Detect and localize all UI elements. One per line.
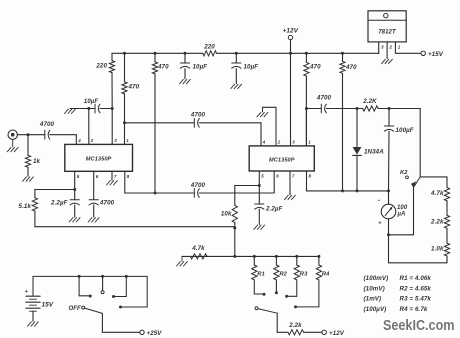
- switch contact 1: [79, 276, 89, 295]
- resistor 470 (to IC2 pin 1): [305, 53, 307, 62]
- svg-text:4700: 4700: [190, 111, 206, 118]
- pin 2 of U1: [88, 109, 90, 145]
- svg-text:R3: R3: [300, 272, 308, 278]
- svg-text:1N34A: 1N34A: [364, 149, 384, 156]
- svg-text:µA: µA: [397, 212, 406, 218]
- svg-text:4700: 4700: [316, 95, 332, 102]
- node 10k-R rail: [233, 255, 236, 258]
- svg-text:R1 = 4.06k: R1 = 4.06k: [400, 275, 432, 282]
- node 470 bottom: [341, 189, 344, 192]
- wire pin5 to 5.1k: [35, 189, 75, 191]
- resistor 5.1k: [32, 198, 37, 211]
- wire switch to +25V terminal: [101, 313, 103, 332]
- pin 5 of U2: [258, 171, 260, 186]
- capacitor 100uF: [388, 109, 390, 127]
- ground (2.2uF IC2): [254, 225, 258, 229]
- pin 1 of 7812T: [394, 42, 396, 53]
- switch contact center stub: [102, 276, 104, 290]
- wire IC2 pin8 to detector junction: [307, 190, 389, 192]
- node meter top junction: [387, 189, 390, 192]
- svg-text:2.2k: 2.2k: [288, 322, 302, 329]
- battery B1 15V: [26, 295, 40, 297]
- svg-text:470: 470: [309, 64, 321, 71]
- capacitor 2.2uF (IC1 pin5): [74, 190, 76, 200]
- pin 2 of U2 to ground hook: [263, 107, 277, 146]
- op-amp U2 MC1350P: [249, 146, 314, 171]
- wire IC2 pin1 vertical: [305, 109, 307, 146]
- pin 6 of U1: [93, 171, 95, 199]
- node IC1 pin5 junction: [73, 188, 76, 191]
- svg-text:R4: R4: [322, 272, 330, 278]
- resistor R4: [318, 256, 320, 265]
- svg-text:MC1350P: MC1350P: [86, 157, 112, 163]
- svg-text:MC1350P: MC1350P: [269, 158, 295, 164]
- svg-text:4700: 4700: [190, 182, 206, 189]
- capacitor 10uF (IC1 bias): [94, 104, 96, 113]
- node IC1 pin2 junction: [87, 107, 90, 110]
- node R2 top: [275, 255, 278, 258]
- wire meter bottom to wiper: [389, 234, 414, 236]
- node battery rail taps: [78, 275, 81, 278]
- svg-text:2.2µF: 2.2µF: [50, 200, 68, 207]
- terminal +15V: [421, 51, 425, 55]
- ground (IC2 pin 7): [285, 195, 289, 199]
- wire +12V to rail and IC2 pin 3: [290, 40, 292, 54]
- svg-text:+25V: +25V: [147, 330, 163, 337]
- svg-text:10k: 10k: [221, 211, 232, 218]
- ground (IC1 pin 2 bypass): [65, 109, 69, 113]
- voltage regulator U3 7812T: [368, 11, 406, 42]
- svg-text:100: 100: [397, 205, 408, 211]
- svg-text:OFF: OFF: [69, 306, 82, 312]
- node diode top: [356, 107, 359, 110]
- svg-text:+12V: +12V: [329, 330, 345, 337]
- capacitor 10uF (first bypass): [184, 53, 186, 63]
- ground (2.2uF IC1): [69, 218, 73, 222]
- svg-text:10µF: 10µF: [244, 64, 259, 71]
- resistor 4.7k chain: [446, 177, 448, 188]
- node R3 top: [295, 255, 298, 258]
- svg-text:R2 = 4.65k: R2 = 4.65k: [400, 285, 432, 292]
- wire chain bottom: [446, 256, 448, 263]
- svg-text:(100µV): (100µV): [364, 306, 387, 313]
- svg-text:K2: K2: [400, 170, 408, 176]
- svg-text:470: 470: [345, 64, 357, 71]
- resistor 2.2k output: [288, 330, 304, 335]
- pin 5 of U1: [74, 171, 76, 189]
- node R4 top: [317, 255, 320, 258]
- svg-text:100µF: 100µF: [396, 127, 414, 134]
- input coax connector J1: [8, 130, 17, 139]
- svg-text:8: 8: [127, 174, 130, 179]
- ground (IC2 pin 2): [257, 112, 261, 116]
- svg-text:220: 220: [95, 63, 107, 70]
- resistor 1.0k chain: [446, 228, 448, 243]
- node IC1 pin3 bias junction: [111, 107, 114, 110]
- capacitor 4700 input coupling: [28, 134, 45, 136]
- wire input to IC1 pin 4: [75, 135, 77, 145]
- pin 7 of U1: [111, 171, 113, 180]
- wire to 2.2k output: [277, 331, 288, 333]
- wire pin5 to 10k: [235, 185, 259, 187]
- resistor 4.7k horizontal: [190, 254, 207, 259]
- resistor 220 (series in rail): [203, 51, 217, 56]
- svg-text:+12V: +12V: [283, 28, 299, 35]
- svg-text:4.7k: 4.7k: [430, 190, 444, 197]
- svg-text:4700: 4700: [39, 121, 55, 128]
- wire 10k to R network rail: [234, 228, 236, 257]
- wire R network rail: [182, 255, 319, 257]
- wire to IC2 pin 4: [260, 123, 262, 146]
- svg-text:2.2µF: 2.2µF: [265, 206, 283, 213]
- node 100uF top: [388, 107, 391, 110]
- ground (regulator): [382, 59, 386, 63]
- svg-text:2.2k: 2.2k: [430, 219, 444, 226]
- ground (1k): [23, 177, 27, 181]
- node 10k bottom junction: [233, 226, 236, 229]
- svg-text:(100mV): (100mV): [364, 275, 389, 282]
- svg-text:+: +: [25, 289, 29, 295]
- node R1 top: [253, 255, 256, 258]
- svg-text:4700: 4700: [99, 200, 115, 207]
- node wire A and 470 line: [154, 192, 157, 195]
- svg-text:2.2K: 2.2K: [362, 98, 377, 105]
- svg-text:1: 1: [398, 45, 401, 50]
- pin 3 of 7812T: [378, 42, 380, 53]
- resistor 220 vertical: [111, 53, 113, 60]
- capacitor 4700 (IC1 pin6): [89, 199, 98, 201]
- capacitor 2.2uF (IC2 pin5): [258, 186, 260, 205]
- pin 8 of U2: [306, 171, 308, 191]
- resistor 2.2K detector: [363, 106, 378, 111]
- svg-text:10µF: 10µF: [193, 64, 208, 71]
- terminal +12V top: [288, 35, 292, 39]
- terminal +25V: [140, 330, 144, 334]
- pin 8 of U1: [124, 171, 126, 193]
- selector switch arm: [255, 307, 258, 310]
- node IC2 pin5 junction: [258, 184, 261, 187]
- ground (10uF first): [180, 79, 184, 83]
- svg-text:R3 = 5.47k: R3 = 5.47k: [400, 296, 432, 303]
- resistor 470 (to detector line): [342, 53, 344, 61]
- svg-text:R2: R2: [279, 272, 287, 278]
- node meter bottom junction: [387, 233, 390, 236]
- ground (battery): [28, 322, 32, 326]
- node wire B junction on pin1 line: [123, 121, 126, 124]
- svg-text:4: 4: [77, 138, 81, 143]
- ground (IC1 pin 7): [107, 181, 111, 185]
- wire pivot to chain top: [420, 176, 447, 178]
- ground (input connector): [7, 147, 11, 151]
- svg-text:7812T: 7812T: [378, 30, 397, 36]
- pin 7 of U2: [289, 171, 291, 195]
- resistor R1: [253, 256, 255, 265]
- svg-text:R4 = 6.7k: R4 = 6.7k: [400, 306, 428, 313]
- resistor R3: [296, 256, 298, 265]
- switch contact 3: [115, 276, 126, 296]
- switch contact right: [119, 306, 122, 309]
- svg-text:(1mV): (1mV): [364, 296, 382, 303]
- svg-text:10µF: 10µF: [84, 99, 98, 105]
- resistor 10k: [232, 205, 237, 222]
- svg-text:2: 2: [388, 45, 392, 50]
- wire B interstage coupling: [125, 122, 195, 124]
- svg-text:3: 3: [292, 140, 295, 145]
- node input junction: [27, 133, 30, 136]
- capacitor 10uF (second bypass): [235, 53, 237, 63]
- resistor 1k: [27, 135, 29, 156]
- svg-text:470: 470: [157, 64, 169, 71]
- pin 3 of U1: [111, 109, 113, 145]
- capacitor 4700 detector coupling: [320, 104, 322, 113]
- svg-text:(10mV): (10mV): [364, 285, 385, 292]
- svg-text:220: 220: [203, 44, 215, 51]
- capacitor 4700 interstage: [193, 118, 195, 127]
- wire AGC feedback bottom: [35, 226, 235, 228]
- ground (4700 IC1): [88, 218, 92, 222]
- wire battery top rail: [33, 276, 147, 307]
- wire +12V supply rail: [112, 52, 203, 54]
- svg-text:2: 2: [90, 138, 94, 143]
- wire to ground (IC1 pin2): [70, 108, 89, 110]
- svg-text:+15V: +15V: [428, 51, 444, 58]
- op-amp U1 MC1350P: [65, 144, 133, 171]
- svg-text:3: 3: [381, 45, 384, 50]
- terminal +12V bottom: [322, 330, 326, 334]
- pin 2 of 7812T: [386, 42, 388, 59]
- ground (R rail left): [181, 256, 183, 261]
- svg-text:15V: 15V: [42, 302, 54, 309]
- capacitor 4700 (wire A coupling): [193, 189, 195, 198]
- power switch arm: [85, 308, 103, 313]
- svg-text:2: 2: [277, 140, 281, 145]
- resistor R2: [275, 256, 277, 265]
- wire up to IC2 pin 6: [273, 171, 275, 193]
- svg-text:1k: 1k: [33, 158, 41, 165]
- svg-text:4: 4: [262, 140, 266, 145]
- node diode bottom: [356, 189, 359, 192]
- svg-text:1.0k: 1.0k: [431, 246, 444, 253]
- meter M1 100uA: [388, 191, 390, 204]
- wiper arrow K2: [411, 181, 416, 187]
- resistor 470 (to interstage node): [154, 53, 156, 62]
- svg-text:470: 470: [128, 84, 140, 91]
- wire 2.2K line down to switch pivot: [419, 109, 421, 177]
- node rail junction dots: [123, 52, 126, 55]
- wire A IC1 pin8 to IC2 pin6: [125, 192, 195, 194]
- node IC2 pin1 junction: [305, 107, 308, 110]
- svg-text:5.1k: 5.1k: [19, 203, 32, 210]
- ground (10uF second): [231, 84, 235, 88]
- svg-text:4.7k: 4.7k: [191, 245, 205, 252]
- resistor 2.2k chain: [446, 201, 448, 216]
- svg-text:5: 5: [261, 174, 264, 179]
- svg-text:R1: R1: [257, 272, 265, 278]
- wire detector line from IC2 pin1 node: [306, 108, 321, 110]
- resistor 470 (to IC1 pin 1): [124, 53, 126, 82]
- diode D1 1N34A: [356, 109, 358, 148]
- svg-text:SeekIC.com: SeekIC.com: [383, 318, 455, 334]
